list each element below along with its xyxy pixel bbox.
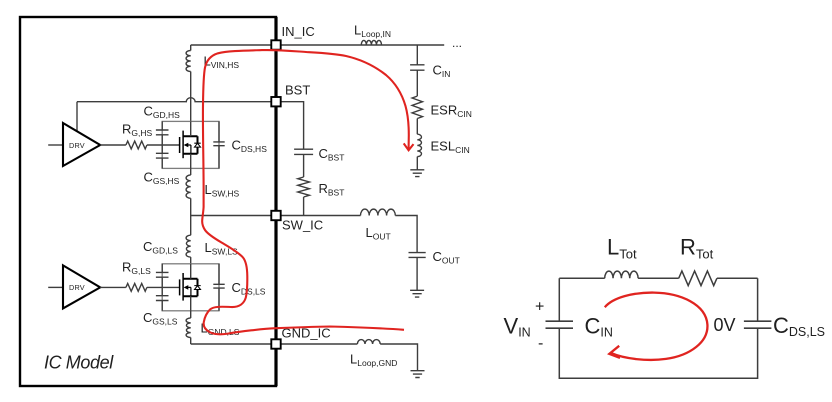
svg-text:RTot: RTot [680,235,714,262]
wire LS source stub [190,296,192,311]
HS parasitic box [162,121,219,168]
wire input branch top [416,45,418,65]
wire R_G,HS to gate [147,144,180,146]
svg-text:DRV: DRV [69,141,85,150]
op-amp driver DRV (high side) [63,123,100,166]
svg-text:IC Model: IC Model [44,353,114,373]
svg-text:CGD,HS: CGD,HS [144,104,181,121]
svg-text:LVIN,HS: LVIN,HS [204,54,240,71]
inductor ESL_CIN [417,134,421,156]
svg-text:LSW,HS: LSW,HS [205,182,240,199]
svg-text:LLoop,IN: LLoop,IN [354,23,391,40]
svg-text:BST: BST [285,83,310,98]
wire L_SW,HS to SW node [190,198,192,215]
svg-text:CDS,HS: CDS,HS [232,138,268,155]
svg-text:CIN: CIN [585,314,613,340]
capacitor C_GS,HS [156,153,169,158]
op-amp driver DRV (low side) [63,265,100,308]
svg-text:RG,HS: RG,HS [122,122,153,139]
red circulating current arc [605,293,708,360]
red hot-loop current path [202,50,409,334]
inductor L_Loop,GND [357,340,380,344]
wire HS drain stub [190,121,192,136]
red arrowhead into ESL_CIN [404,143,414,150]
wire LS driver input stub [48,286,63,288]
wire BST horizontal with hop over chain [77,98,271,102]
wire L_GND,LS to GND node [190,338,192,345]
wire BST to HS driver supply [76,102,78,131]
svg-text:CGS,HS: CGS,HS [144,170,180,187]
main IC pin bus (vertical) [274,17,277,386]
inductor L_GND,LS [186,318,191,338]
wire HS source to L_SW,HS [190,168,192,175]
resistor ESR_CIN [412,96,422,118]
capacitor C_OUT [409,253,426,258]
wire LS DRV to R_G,LS [100,286,126,288]
inductor L_SW,HS [186,175,191,198]
svg-text:RBST: RBST [319,181,345,198]
wire L_Loop,GND to ground [380,344,417,371]
pin IN_IC [271,40,280,49]
svg-text:CIN: CIN [433,63,451,80]
red circulating arrowhead [609,346,620,358]
svg-text:CGD,LS: CGD,LS [143,239,178,256]
capacitor C_GD,HS [156,130,169,135]
svg-text:ESLCIN: ESLCIN [431,139,470,156]
source V_IN plates [546,321,574,328]
svg-text:DRV: DRV [69,283,85,292]
wire HS source stub [190,154,192,169]
wire ESL_CIN to ground [416,157,418,170]
inductor L_Loop,IN [361,40,381,45]
equivalent loop: top wire segments [559,277,757,279]
svg-text:CGS,LS: CGS,LS [143,310,178,327]
pin SW_IC [271,211,280,220]
svg-text:LTot: LTot [607,235,637,262]
wire R_BST to SW [303,197,305,216]
svg-text:VIN: VIN [504,314,531,340]
resistor R_G,LS [126,284,147,292]
wire SW_IC horizontal left [191,215,272,217]
wire IN_IC to input network [281,44,444,46]
wire R_G,LS to LS gate [147,286,180,288]
svg-text:SW_IC: SW_IC [282,218,323,233]
wire L_VIN,HS to HS MOSFET block [190,72,192,122]
svg-text:-: - [538,335,543,352]
svg-text:RG,LS: RG,LS [122,260,151,277]
transistor Q_HS (high-side MOSFET) [180,131,201,159]
svg-text:+: + [535,299,544,316]
resistor R_BST [298,177,310,197]
IC model boundary box [20,17,276,386]
LS parasitic box [162,264,219,311]
ground C_OUT [410,290,424,297]
wire SW_IC to L_OUT [281,215,361,217]
wire LS source to L_GND,LS [190,311,192,318]
svg-text:CDS,LS: CDS,LS [232,280,266,297]
wire C_BST to R_BST [303,154,305,177]
wire L_SW,LS to LS MOSFET block [190,257,192,264]
svg-text:0V: 0V [714,315,736,335]
svg-text:COUT: COUT [433,249,460,266]
capacitor C_IN [410,65,424,70]
wire IN_IC to L_VIN,HS (top horizontal) [191,44,272,46]
capacitor C_GS,LS [156,296,169,301]
capacitor C_BST [294,149,313,154]
capacitor C_GD,LS [156,272,169,277]
ground GND branch [411,371,425,378]
wire DRV to R_G,HS [100,144,126,146]
wire ESR_CIN to ESL_CIN [416,119,418,135]
wire LS drain stub [190,264,192,279]
svg-text:CDS,LS: CDS,LS [773,313,825,339]
wire C_OUT to ground [416,257,418,290]
capacitor C_DS,LS equivalent plates [744,321,772,328]
svg-text:IN_IC: IN_IC [282,24,315,39]
inductor L_OUT [361,209,396,215]
inductor L_SW,LS [186,235,191,257]
wire HS gate rail segments [161,121,163,168]
wire L_OUT to C_OUT [395,216,417,253]
inductor L_Tot [605,271,638,278]
wire HS driver input stub [48,144,63,146]
pin BST [271,97,280,106]
wire C_IN to ESR_CIN [416,70,418,96]
equivalent loop: bottom/left/right wires [559,278,757,378]
inductor L_VIN,HS [186,51,191,72]
svg-text:ESRCIN: ESRCIN [431,103,472,120]
pin GND_IC [271,339,280,348]
svg-text:...: ... [452,36,462,50]
wire LS gate rail segments [161,264,163,311]
capacitor C_DS,LS [213,264,224,311]
wire SW to L_SW,LS [190,216,192,236]
svg-text:LOUT: LOUT [366,225,391,242]
ground input branch [410,170,424,177]
wire BST to C_BST branch [281,102,304,150]
capacitor C_DS,HS [213,121,224,168]
resistor R_Tot [679,271,717,286]
resistor R_G,HS [126,141,147,149]
wire top of L_VIN,HS [190,45,192,51]
transistor Q_LS (low-side MOSFET) [180,273,201,301]
svg-text:CBST: CBST [319,146,345,163]
wire GND_IC horizontal [191,343,358,345]
svg-text:LLoop,GND: LLoop,GND [350,352,397,369]
